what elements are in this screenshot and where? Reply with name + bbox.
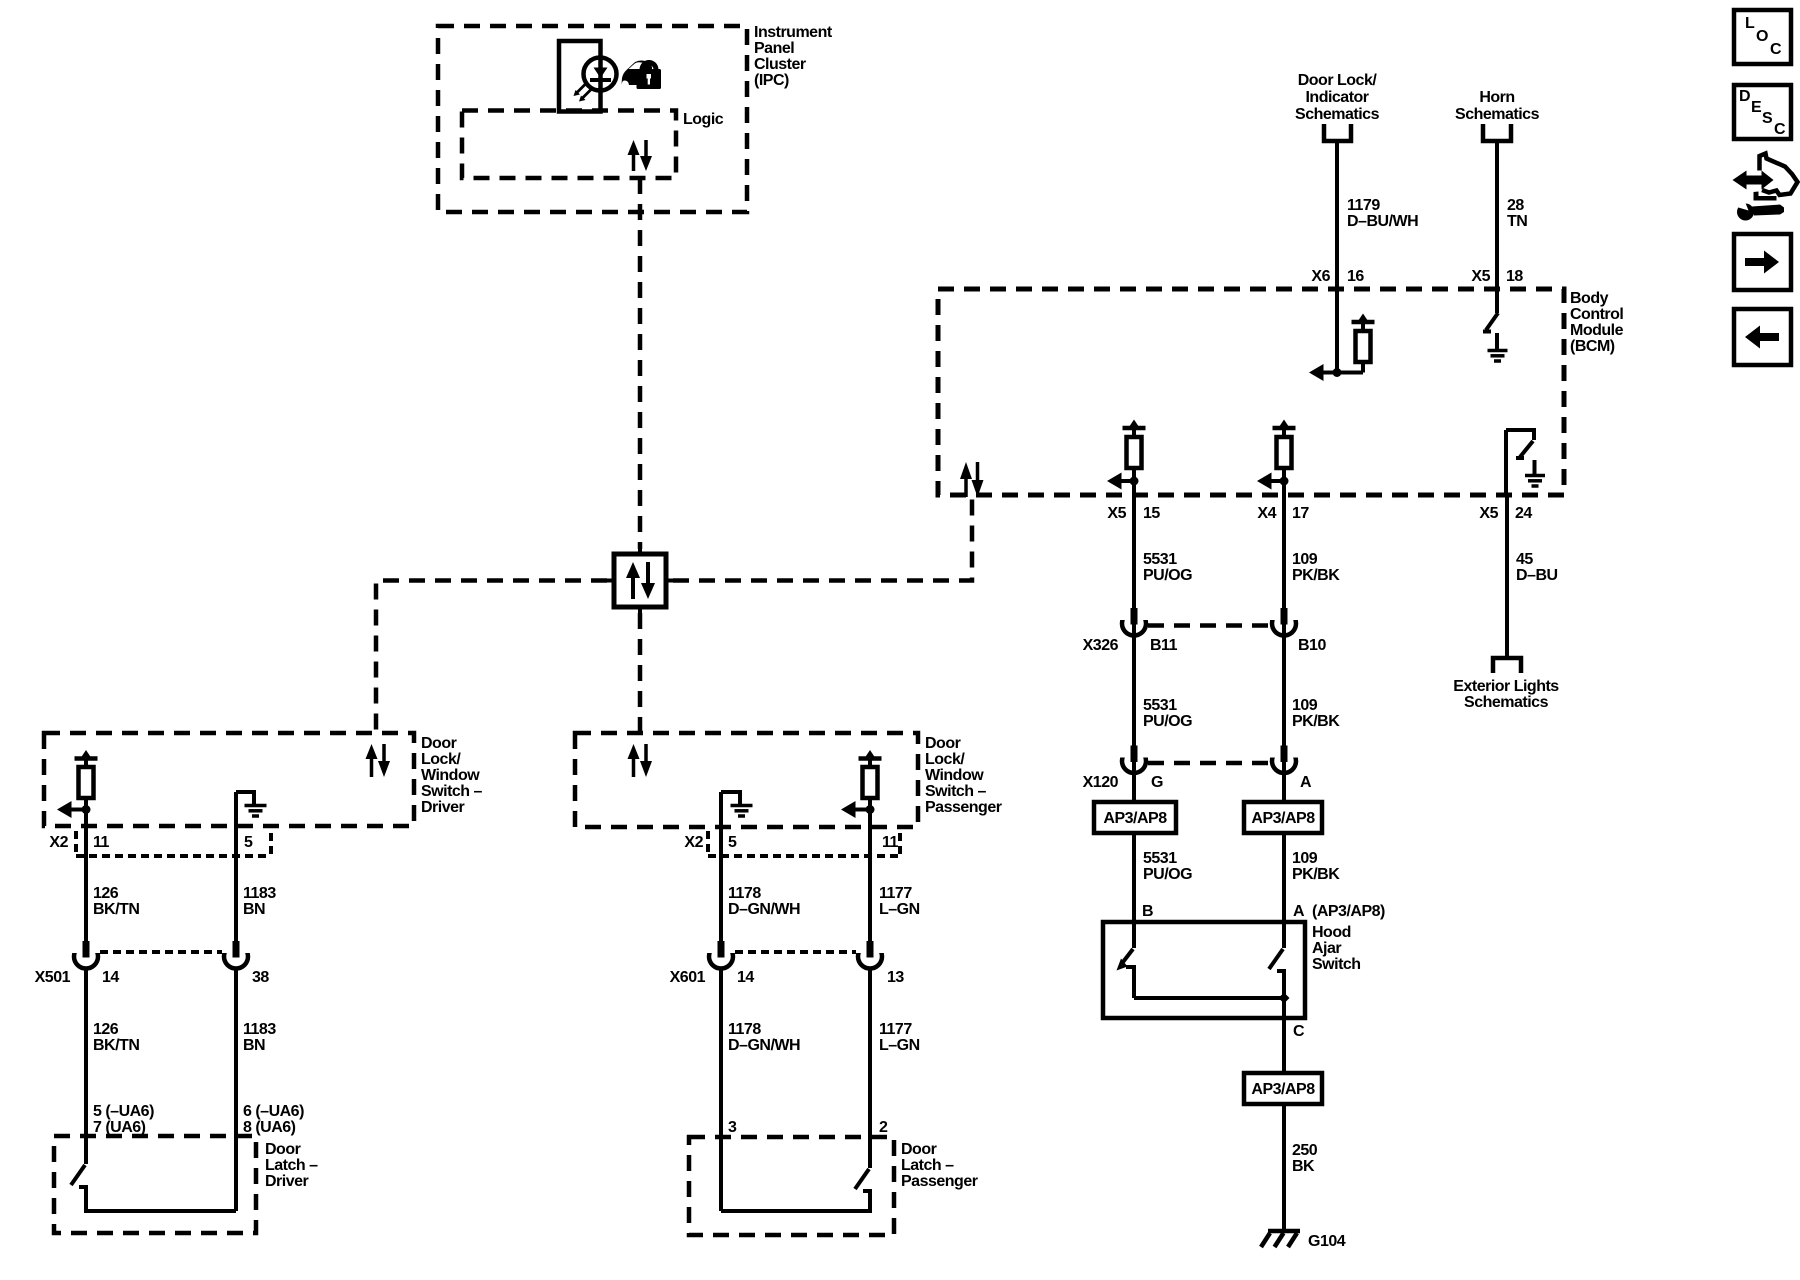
passenger illumination resistor — [859, 750, 882, 810]
svg-text:Cluster: Cluster — [754, 56, 806, 73]
svg-text:AP3/AP8: AP3/AP8 — [1251, 810, 1315, 827]
svg-text:S: S — [1762, 110, 1773, 127]
BCM output resistor A — [1107, 420, 1146, 496]
svg-text:Switch –: Switch – — [421, 783, 483, 800]
svg-text:38: 38 — [252, 969, 269, 986]
BCM output resistor B — [1257, 420, 1296, 496]
svg-text:14: 14 — [102, 969, 119, 986]
svg-text:1178: 1178 — [728, 885, 761, 902]
driver resistor junction — [82, 805, 91, 814]
svg-text:X326: X326 — [1083, 637, 1119, 654]
svg-text:Driver: Driver — [421, 799, 465, 816]
wire 109 (BCM to X326) — [1282, 495, 1286, 941]
svg-text:Door: Door — [265, 1141, 301, 1158]
passenger latch lower contact — [863, 1191, 870, 1211]
svg-text:C: C — [1774, 121, 1786, 138]
BCM interior switch ground — [1525, 460, 1545, 486]
hood switch left blade — [1117, 949, 1134, 971]
forward arrow box — [1734, 234, 1791, 290]
svg-text:BK/TN: BK/TN — [93, 901, 139, 918]
svg-text:G: G — [1151, 774, 1163, 791]
svg-text:Ajar: Ajar — [1312, 940, 1341, 957]
logic up-down arrows — [628, 140, 653, 171]
splice pack AP3/AP8 (left) — [1094, 802, 1176, 833]
svg-text:1183: 1183 — [243, 1021, 276, 1038]
svg-text:5 (–UA6): 5 (–UA6) — [93, 1103, 154, 1120]
svg-text:L–GN: L–GN — [879, 901, 920, 918]
svg-text:B10: B10 — [1298, 637, 1326, 654]
svg-text:X601: X601 — [670, 969, 706, 986]
off-page connector (horn) — [1483, 124, 1511, 141]
svg-text:Body: Body — [1570, 290, 1609, 307]
svg-text:Lock/: Lock/ — [421, 751, 461, 768]
svg-text:Panel: Panel — [754, 40, 794, 57]
passenger box up-down arrows — [628, 744, 653, 777]
dashed wire to passenger switch — [638, 613, 643, 733]
svg-text:16: 16 — [1347, 268, 1364, 285]
svg-text:5: 5 — [728, 834, 737, 851]
driver dimming arrow — [57, 801, 86, 818]
wire 1183 to latch — [234, 969, 238, 1212]
svg-text:C: C — [1293, 1023, 1305, 1040]
svg-text:D: D — [1739, 88, 1750, 105]
wire 250 BK — [1282, 1104, 1286, 1231]
svg-text:B11: B11 — [1150, 637, 1178, 654]
passenger switch wire 2 — [868, 810, 872, 942]
hood switch wire B — [1132, 922, 1136, 948]
svg-text:Module: Module — [1570, 322, 1624, 339]
svg-text:Door Lock/: Door Lock/ — [1298, 72, 1378, 89]
svg-text:18: 18 — [1506, 268, 1523, 285]
Logic box — [462, 111, 676, 179]
X2 driver connector bracket — [76, 831, 271, 856]
driver box up-down arrows — [366, 744, 391, 777]
DESC navigation box — [1734, 85, 1791, 139]
svg-text:11: 11 — [882, 834, 899, 851]
wire to C terminal — [1282, 998, 1286, 1073]
driver switch wire 1 — [84, 810, 88, 942]
svg-text:5531: 5531 — [1143, 850, 1177, 867]
hood switch junction — [1279, 993, 1290, 1004]
dashed bus to BCM — [673, 495, 972, 581]
svg-text:A: A — [1300, 774, 1312, 791]
passenger resistor junction — [866, 805, 875, 814]
svg-text:45: 45 — [1516, 551, 1533, 568]
svg-text:17: 17 — [1292, 505, 1309, 522]
junction box arrows — [626, 562, 655, 599]
hood switch common wire — [1134, 996, 1284, 1000]
driver ground hook — [236, 792, 254, 804]
svg-text:28: 28 — [1507, 197, 1524, 214]
svg-text:Schematics: Schematics — [1295, 106, 1380, 123]
car with lock icon — [622, 60, 662, 89]
svg-text:BK: BK — [1292, 1158, 1315, 1175]
svg-text:C: C — [1770, 41, 1782, 58]
svg-text:PU/OG: PU/OG — [1143, 567, 1192, 584]
wire 1178 to latch — [719, 969, 723, 1212]
BCM horn switch ground — [1488, 333, 1508, 361]
dashed signal wire IPC logic to junction — [638, 178, 643, 549]
Hood Ajar Switch box — [1103, 922, 1305, 1018]
svg-text:X4: X4 — [1257, 505, 1276, 522]
svg-text:(BCM): (BCM) — [1570, 338, 1615, 355]
svg-text:O: O — [1756, 28, 1768, 45]
Door Lock/Window Switch - Passenger box — [575, 733, 918, 827]
LED emission arrows — [574, 84, 592, 102]
svg-text:Schematics: Schematics — [1455, 106, 1540, 123]
svg-text:Door: Door — [421, 735, 457, 752]
X120 connector — [1120, 746, 1299, 774]
hood switch left contact — [1126, 967, 1134, 998]
Door Latch - Passenger box — [689, 1137, 894, 1235]
svg-text:1177: 1177 — [879, 885, 912, 902]
svg-text:126: 126 — [93, 885, 119, 902]
svg-text:PK/BK: PK/BK — [1292, 713, 1340, 730]
ground G104 — [1261, 1231, 1300, 1247]
driver ground — [245, 806, 267, 817]
svg-text:D–BU: D–BU — [1516, 567, 1558, 584]
svg-text:Exterior Lights: Exterior Lights — [1453, 678, 1559, 695]
Body Control Module box — [938, 289, 1564, 495]
off-page connector (door lock) — [1324, 124, 1351, 141]
wire 5531 (BCM to X326) — [1132, 495, 1136, 941]
passenger latch bottom wire — [721, 1209, 872, 1213]
back arrow box — [1734, 309, 1791, 365]
svg-text:250: 250 — [1292, 1142, 1318, 1159]
svg-text:X120: X120 — [1083, 774, 1119, 791]
splice pack AP3/AP8 (right) — [1244, 802, 1322, 833]
driver latch switch blade — [71, 1165, 85, 1185]
hood switch right contact — [1277, 971, 1284, 998]
svg-text:Hood: Hood — [1312, 924, 1351, 941]
BCM serial data arrows — [960, 462, 984, 497]
driver switch wire 2 — [234, 792, 238, 941]
svg-text:Passenger: Passenger — [901, 1173, 978, 1190]
svg-text:AP3/AP8: AP3/AP8 — [1251, 1081, 1315, 1098]
svg-text:D–GN/WH: D–GN/WH — [728, 1037, 800, 1054]
passenger ground hook — [721, 792, 740, 804]
dashed bus to driver switch — [376, 581, 607, 734]
svg-text:109: 109 — [1292, 551, 1318, 568]
svg-text:Window: Window — [421, 767, 480, 784]
driver latch bottom wire — [84, 1209, 236, 1213]
svg-text:Schematics: Schematics — [1464, 694, 1549, 711]
X2 passenger connector bracket — [708, 831, 900, 856]
indicator LED — [584, 43, 617, 111]
svg-text:PK/BK: PK/BK — [1292, 866, 1340, 883]
Door Lock/Window Switch - Driver box — [44, 733, 414, 826]
wire 28 TN — [1495, 141, 1499, 289]
svg-text:E: E — [1751, 99, 1762, 116]
Door Latch - Driver box — [54, 1136, 256, 1233]
hood switch wire A — [1282, 922, 1286, 948]
X501 connector driver — [72, 941, 251, 969]
svg-text:3: 3 — [728, 1119, 737, 1136]
wire 126 to latch — [84, 969, 88, 1165]
svg-text:24: 24 — [1515, 505, 1532, 522]
LOC navigation box — [1734, 10, 1791, 64]
svg-text:BN: BN — [243, 901, 265, 918]
svg-text:BN: BN — [243, 1037, 265, 1054]
svg-text:(IPC): (IPC) — [754, 72, 789, 89]
svg-text:13: 13 — [887, 969, 904, 986]
svg-text:7 (UA6): 7 (UA6) — [93, 1119, 146, 1136]
wire 1179 D-BU/WH — [1335, 141, 1339, 289]
svg-text:Horn: Horn — [1479, 89, 1514, 106]
X326 connector — [1120, 608, 1299, 636]
svg-text:Switch: Switch — [1312, 956, 1361, 973]
svg-text:(AP3/AP8): (AP3/AP8) — [1312, 903, 1385, 920]
svg-text:1179: 1179 — [1347, 197, 1380, 214]
svg-text:5531: 5531 — [1143, 697, 1177, 714]
svg-text:D–BU/WH: D–BU/WH — [1347, 213, 1418, 230]
BCM indicator driver resistor — [1309, 289, 1375, 381]
svg-text:Control: Control — [1570, 306, 1623, 323]
wire 45 D-BU — [1505, 495, 1509, 658]
passenger switch wire 1 — [719, 792, 723, 941]
svg-text:PK/BK: PK/BK — [1292, 567, 1340, 584]
svg-text:2: 2 — [879, 1119, 888, 1136]
svg-text:L–GN: L–GN — [879, 1037, 920, 1054]
svg-text:5: 5 — [244, 834, 253, 851]
svg-text:Driver: Driver — [265, 1173, 309, 1190]
svg-text:15: 15 — [1143, 505, 1160, 522]
driver latch lower contact — [79, 1187, 86, 1211]
svg-text:X5: X5 — [1479, 505, 1498, 522]
svg-text:11: 11 — [93, 834, 110, 851]
splice pack AP3/AP8 (ground) — [1244, 1073, 1322, 1104]
svg-text:Door: Door — [901, 1141, 937, 1158]
svg-text:X5: X5 — [1471, 268, 1490, 285]
svg-text:X5: X5 — [1107, 505, 1126, 522]
svg-text:109: 109 — [1292, 850, 1318, 867]
svg-text:Instrument: Instrument — [754, 24, 833, 41]
hood switch right blade — [1269, 949, 1283, 969]
BCM interior switch to ground — [1506, 430, 1534, 495]
svg-text:Latch –: Latch – — [265, 1157, 318, 1174]
svg-text:109: 109 — [1292, 697, 1318, 714]
svg-text:L: L — [1745, 15, 1755, 32]
svg-text:1177: 1177 — [879, 1021, 912, 1038]
svg-text:B: B — [1142, 903, 1153, 920]
svg-text:PU/OG: PU/OG — [1143, 866, 1192, 883]
svg-text:Switch –: Switch – — [925, 783, 987, 800]
svg-text:Latch –: Latch – — [901, 1157, 954, 1174]
svg-text:5531: 5531 — [1143, 551, 1177, 568]
svg-text:TN: TN — [1507, 213, 1527, 230]
service icon wrench — [1735, 201, 1784, 221]
serial data junction box — [607, 548, 673, 613]
BCM horn switch — [1483, 289, 1498, 332]
service icon double arrow — [1733, 171, 1774, 190]
svg-text:Lock/: Lock/ — [925, 751, 965, 768]
off-page connector (exterior lights) — [1493, 658, 1521, 673]
svg-text:AP3/AP8: AP3/AP8 — [1103, 810, 1167, 827]
svg-text:Logic: Logic — [683, 111, 724, 128]
svg-text:X2: X2 — [49, 834, 68, 851]
passenger dimming arrow — [841, 801, 870, 818]
passenger ground — [731, 806, 753, 817]
svg-text:X6: X6 — [1311, 268, 1330, 285]
driver illumination resistor — [75, 750, 98, 810]
svg-text:126: 126 — [93, 1021, 119, 1038]
passenger latch switch blade — [855, 1169, 869, 1189]
svg-text:X501: X501 — [35, 969, 71, 986]
IPC box — [438, 26, 747, 212]
svg-text:D–GN/WH: D–GN/WH — [728, 901, 800, 918]
svg-text:Indicator: Indicator — [1305, 89, 1368, 106]
service icon vehicle outline — [1754, 154, 1798, 201]
svg-text:6 (–UA6): 6 (–UA6) — [243, 1103, 304, 1120]
svg-text:BK/TN: BK/TN — [93, 1037, 139, 1054]
svg-text:G104: G104 — [1308, 1233, 1346, 1250]
svg-text:Passenger: Passenger — [925, 799, 1002, 816]
svg-text:1183: 1183 — [243, 885, 276, 902]
security indicator lamp frame — [559, 41, 601, 112]
svg-text:8 (UA6): 8 (UA6) — [243, 1119, 296, 1136]
svg-text:A: A — [1293, 903, 1305, 920]
X601 connector passenger — [707, 941, 885, 969]
svg-text:14: 14 — [737, 969, 754, 986]
svg-text:Door: Door — [925, 735, 961, 752]
svg-text:X2: X2 — [684, 834, 703, 851]
svg-text:PU/OG: PU/OG — [1143, 713, 1192, 730]
svg-text:1178: 1178 — [728, 1021, 761, 1038]
wire 1177 to latch — [868, 969, 872, 1169]
svg-text:Window: Window — [925, 767, 984, 784]
